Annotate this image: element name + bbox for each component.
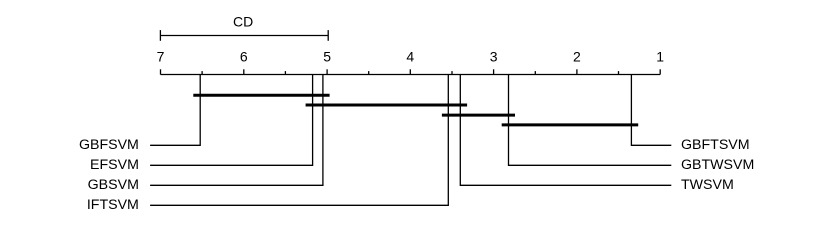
svg-text:IFTSVM: IFTSVM xyxy=(87,197,139,213)
svg-text:GBFTSVM: GBFTSVM xyxy=(681,137,750,153)
svg-text:7: 7 xyxy=(157,49,165,65)
svg-text:GBTWSVM: GBTWSVM xyxy=(681,157,754,173)
svg-text:3: 3 xyxy=(490,49,498,65)
svg-text:CD: CD xyxy=(233,14,253,30)
svg-text:5: 5 xyxy=(323,49,331,65)
svg-text:GBFSVM: GBFSVM xyxy=(79,137,139,153)
svg-text:1: 1 xyxy=(656,49,664,65)
svg-text:4: 4 xyxy=(406,49,414,65)
svg-text:TWSVM: TWSVM xyxy=(681,177,734,193)
svg-text:EFSVM: EFSVM xyxy=(90,157,139,173)
svg-text:2: 2 xyxy=(573,49,581,65)
svg-text:GBSVM: GBSVM xyxy=(88,177,139,193)
svg-text:6: 6 xyxy=(240,49,248,65)
